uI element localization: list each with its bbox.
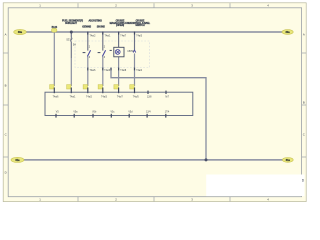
svg-text:T4a/5: T4a/5 [136,36,143,38]
svg-text:C: C [5,133,7,137]
svg-text:12/8: 12/8 [147,97,152,99]
svg-text:T4a/6: T4a/6 [90,70,97,72]
svg-text:T4a/3: T4a/3 [101,97,108,99]
svg-text:30a: 30a [18,31,23,34]
svg-text:B123: B123 [52,27,58,29]
svg-text:T4a/4: T4a/4 [136,70,143,72]
svg-text:SHUNS: SHUNS [97,26,106,29]
svg-text:V5b: V5b [92,111,97,113]
svg-text:T4a/7: T4a/7 [120,36,127,38]
svg-text:T4a/3: T4a/3 [104,70,111,72]
svg-text:T4a/8: T4a/8 [120,70,127,72]
svg-text:(OPEN): (OPEN) [116,24,124,27]
svg-text:T4a/7: T4a/7 [117,97,124,99]
svg-text:D: D [5,171,7,175]
svg-text:A: A [5,33,7,37]
svg-text:A: A [303,33,305,37]
svg-text:12/4: 12/4 [146,111,151,113]
svg-text:SWITCH: SWITCH [135,24,144,27]
svg-text:C: C [303,133,305,137]
svg-text:17/4: 17/4 [165,111,170,113]
svg-text:30a: 30a [286,31,291,34]
svg-text:B: B [303,101,305,105]
svg-text:V5a: V5a [73,111,78,113]
svg-text:SUBLIGHT: SUBLIGHT [65,22,77,25]
svg-text:T4a/1: T4a/1 [70,97,77,99]
svg-text:B: B [5,84,7,88]
svg-text:ADJUSTING: ADJUSTING [89,20,103,23]
svg-text:31a: 31a [286,159,291,162]
svg-text:S37: S37 [66,38,71,42]
svg-text:31a: 31a [15,159,20,162]
svg-text:T4a/1: T4a/1 [105,36,112,38]
svg-text:V5d: V5d [128,111,133,113]
svg-text:GEWNS: GEWNS [82,26,91,29]
svg-text:T4a/5: T4a/5 [133,97,140,99]
svg-text:5A: 5A [73,43,76,46]
svg-text:T4a/2: T4a/2 [90,36,97,38]
svg-text:T4a/6: T4a/6 [53,97,60,99]
svg-text:T4a/2: T4a/2 [86,97,93,99]
